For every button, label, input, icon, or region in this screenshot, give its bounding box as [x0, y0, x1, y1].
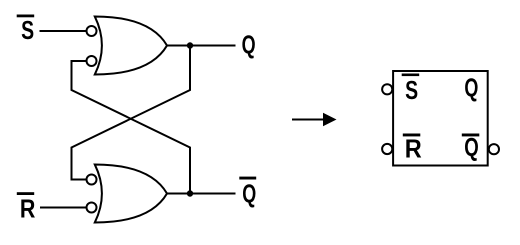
junction node Q-bar — [187, 190, 193, 196]
pin label Q-bar — [462, 132, 480, 162]
arrow equivalence — [292, 113, 337, 126]
wire U1 output to node Q — [166, 45, 236, 47]
wire Q feedback to U2 input — [72, 46, 191, 180]
NOR gate U2 — [95, 165, 167, 223]
label S-bar input — [17, 15, 35, 46]
wire Q-bar feedback to U1 input — [72, 61, 191, 194]
wire U2 output to node Q-bar — [166, 193, 236, 195]
svg-text:Q: Q — [464, 132, 479, 162]
svg-text:Q: Q — [464, 72, 478, 102]
label R-bar input — [17, 192, 36, 224]
svg-text:Q: Q — [242, 178, 256, 208]
svg-text:Q: Q — [242, 30, 256, 60]
input bubble U1 pin 1 — [87, 26, 97, 36]
wire R-bar to gate U2 — [40, 207, 86, 209]
pin label R-bar — [403, 134, 422, 164]
bubble U3 Q-bar output — [489, 144, 499, 154]
junction node Q — [187, 42, 193, 48]
wire S-bar to gate U1 — [40, 30, 87, 32]
input bubble U1 pin 2 — [87, 56, 97, 66]
pin label S-bar — [402, 74, 420, 105]
bubble U3 R input — [382, 144, 392, 154]
svg-text:R: R — [20, 194, 36, 224]
input bubble U2 pin 2 — [87, 203, 97, 213]
label Q-bar output — [239, 177, 256, 209]
svg-text:R: R — [405, 134, 422, 164]
latch block U3 — [393, 71, 488, 166]
bubble U3 S input — [382, 84, 392, 94]
NOR gate U1 — [95, 17, 167, 75]
input bubble U2 pin 1 — [87, 175, 97, 185]
svg-text:S: S — [405, 75, 418, 105]
svg-text:S: S — [21, 15, 34, 45]
